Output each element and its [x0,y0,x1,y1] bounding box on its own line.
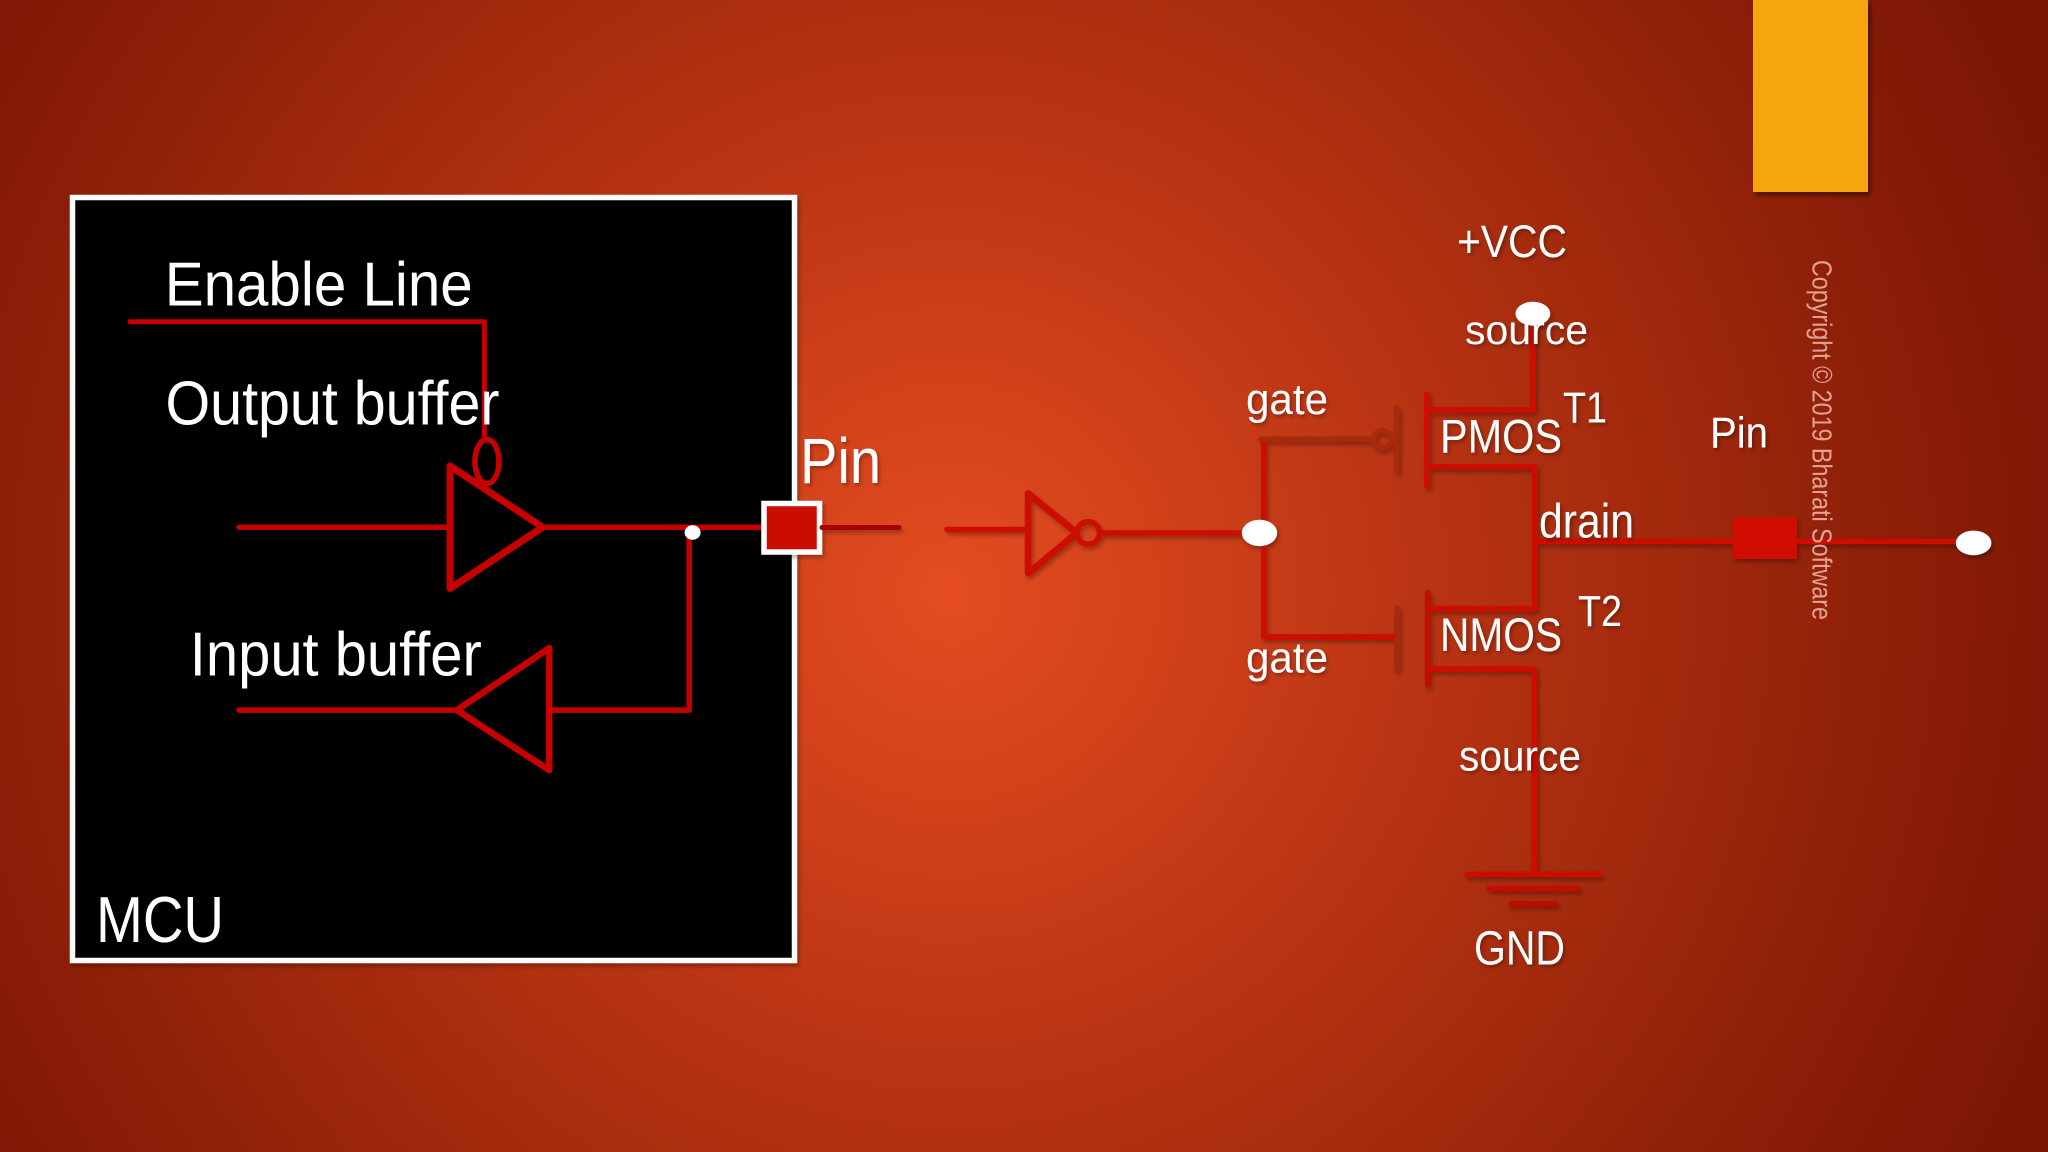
svg-text:Copyright © 2019 Bharati Softw: Copyright © 2019 Bharati Software [1807,260,1838,620]
wire NMOS drain [1430,606,1535,612]
wire NOT gate output to node [1100,530,1252,536]
node right white ellipse [1956,531,1992,556]
transistor Q2 NMOS channel bar [1425,593,1431,686]
wire output buffer input [239,525,450,531]
wire junction vertical to input buffer [549,529,689,710]
svg-text:gate: gate [1246,375,1328,424]
svg-text:NMOS: NMOS [1440,608,1562,661]
svg-text:gate: gate [1246,633,1328,682]
NOT gate triangle [1028,493,1077,573]
svg-text:T1: T1 [1563,383,1607,432]
transistor Q1 PMOS channel bar [1424,394,1430,486]
svg-text:Input buffer: Input buffer [190,621,482,690]
node white ellipse [1242,520,1277,546]
pin square right [1733,518,1797,560]
wire output buffer to pin [543,525,763,531]
svg-text:+VCC: +VCC [1457,216,1567,267]
svg-text:drain: drain [1539,496,1634,549]
svg-text:MCU: MCU [96,883,224,956]
transistor Q1 PMOS gate bar [1394,409,1400,471]
svg-text:source: source [1465,307,1588,353]
ground symbol [1467,872,1600,878]
outside circuit [947,302,1991,904]
orange accent rectangle top right [1753,0,1868,192]
svg-text:GND: GND [1474,923,1565,976]
svg-text:Output buffer: Output buffer [166,370,500,439]
wire PMOS gate lead [1261,436,1372,442]
wire NMOS gate lead [1264,634,1394,640]
svg-text:Pin: Pin [800,425,881,497]
wire gates vertical [1261,439,1267,637]
node junction dot [685,525,701,539]
transistor Q2 NMOS gate bar [1394,608,1400,669]
svg-text:Pin: Pin [1710,408,1768,457]
node VCC white ellipse [1516,302,1551,326]
wire enable line [130,322,484,440]
svg-text:source: source [1459,733,1581,781]
wire drain to right pin [1535,539,1734,545]
MCU box [73,198,795,961]
svg-text:PMOS: PMOS [1440,410,1562,463]
wire PMOS source [1430,326,1534,410]
svg-text:Enable Line: Enable Line [165,251,473,320]
wire NOT gate input [947,527,1028,533]
op-amp input buffer triangle [457,648,549,770]
NOT gate bubble [1077,522,1100,545]
wire input buffer output [239,707,457,713]
wire NMOS source [1430,669,1534,872]
wire PMOS drain [1430,467,1535,609]
op-amp output buffer triangle [450,466,543,589]
enable bubble on output buffer [475,440,499,484]
wire right pin lead [1797,539,1957,545]
transistor Q1 PMOS gate bubble [1374,430,1392,448]
wire pin lead right [822,525,899,530]
svg-text:T2: T2 [1578,587,1622,636]
pin square MCU boundary [764,504,820,553]
